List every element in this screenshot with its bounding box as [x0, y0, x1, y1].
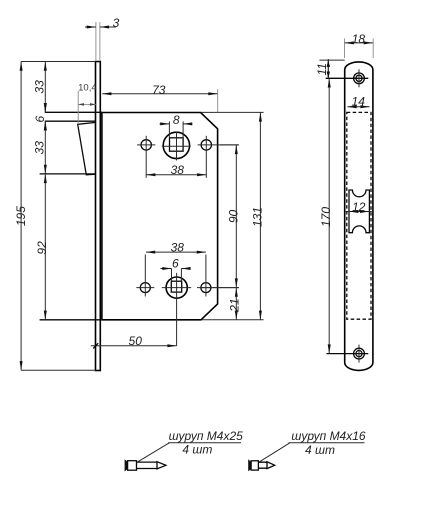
- bottom follower center lines: [162, 273, 191, 346]
- dimension 38 (top fixing holes spacing): [146, 163, 206, 177]
- svg-text:12: 12: [352, 200, 366, 214]
- dimension 10,4 (latch protrusion): [78, 82, 97, 124]
- faceplate side view (left view, 3mm thick plate): [96, 62, 101, 371]
- svg-text:38: 38: [171, 163, 185, 177]
- svg-text:6: 6: [33, 115, 47, 122]
- lock body outline side view with chamfered right corners: [102, 113, 218, 320]
- dimension 38 (bottom fixing holes spacing): [146, 241, 206, 255]
- dimension 21 (bottom hole to body bottom): [200, 288, 241, 320]
- dimension 8 (square hole): [160, 113, 192, 138]
- svg-text:195: 195: [14, 206, 28, 226]
- top follower center lines: [162, 132, 191, 161]
- top follower square hole 8mm: [170, 138, 184, 151]
- svg-text:8: 8: [173, 113, 180, 127]
- dimension 170 (screw holes spacing): [319, 78, 333, 353]
- svg-text:33: 33: [33, 80, 47, 94]
- top left fixing hole with center cross: [137, 136, 155, 178]
- top right fixing hole with center cross: [198, 136, 239, 178]
- bottom follower hole: circle: [166, 277, 187, 298]
- extension line body top left: [45, 111, 102, 113]
- dimension 6 (bottom square hole): [160, 256, 190, 281]
- bottom screw hole front view: [326, 345, 368, 363]
- bottom right fixing hole with center cross: [197, 255, 239, 297]
- dimension 11 (top hole offset): [315, 59, 345, 78]
- dimension 18 (faceplate width): [345, 32, 374, 58]
- svg-text:4 шт: 4 шт: [305, 443, 335, 457]
- dashed lock body hidden outline: [347, 112, 371, 319]
- latch bolt front view with waist notches: [349, 190, 369, 233]
- svg-text:50: 50: [129, 334, 143, 348]
- svg-text:21: 21: [227, 298, 241, 312]
- top follower hole: circle: [163, 132, 189, 158]
- svg-text:38: 38: [171, 241, 185, 255]
- leader and label screw 2: [260, 429, 366, 462]
- faceplate front outline (rounded ends): [345, 62, 373, 370]
- svg-text:11: 11: [315, 63, 329, 75]
- svg-text:14: 14: [352, 94, 366, 108]
- top screw hole front view: [326, 69, 369, 87]
- svg-text:92: 92: [35, 241, 49, 255]
- bottom left fixing hole with center cross: [136, 255, 154, 297]
- screw 1 (M4x25) head: [125, 459, 137, 471]
- svg-text:3: 3: [113, 16, 120, 30]
- svg-text:4 шт: 4 шт: [182, 443, 212, 457]
- extension line faceplate top edge: [21, 61, 95, 63]
- dimension 131 (body height): [201, 112, 265, 319]
- leader and label screw 1: [137, 429, 243, 462]
- dimension 12 (latch width): [345, 200, 372, 214]
- dimension 50 (backset): [91, 334, 177, 348]
- svg-text:131: 131: [251, 207, 265, 227]
- bottom follower square hole 6mm: [171, 281, 181, 292]
- svg-text:73: 73: [152, 83, 166, 97]
- svg-text:33: 33: [33, 141, 47, 155]
- dimension 195 (overall faceplate length): [14, 62, 28, 371]
- extension line body bottom left: [40, 319, 100, 321]
- extension line latch top: [45, 120, 96, 122]
- extension line faceplate bottom edge: [21, 369, 95, 371]
- dimension 14 (body width hidden): [347, 94, 369, 108]
- screw 1 shank and tip: [137, 462, 166, 469]
- dimension 73 (body depth): [102, 83, 218, 112]
- svg-text:6: 6: [172, 256, 179, 270]
- latch bolt side view: [78, 122, 96, 174]
- screw 2 shank and tip: [258, 462, 274, 469]
- svg-text:18: 18: [352, 32, 366, 46]
- svg-text:90: 90: [226, 210, 240, 224]
- svg-text:170: 170: [319, 207, 333, 227]
- svg-text:шуруп M4x25: шуруп M4x25: [169, 429, 244, 443]
- dimension 90 (hole centers distance): [220, 145, 240, 288]
- screw 2 (M4x16) head: [248, 459, 258, 471]
- svg-text:10,4: 10,4: [78, 82, 97, 93]
- extension line latch bottom: [40, 173, 96, 175]
- dimension 3 (faceplate thickness): [85, 16, 120, 60]
- svg-text:шуруп M4x16: шуруп M4x16: [291, 429, 366, 443]
- chained dimension line 33/6/33/92: [33, 62, 50, 320]
